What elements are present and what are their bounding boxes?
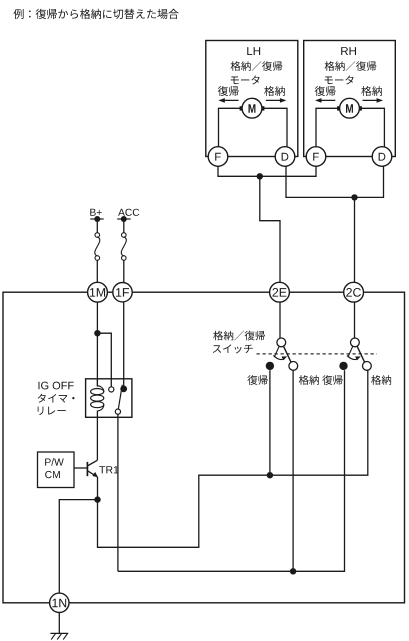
ACC tap point xyxy=(121,216,127,222)
label 2C xyxy=(346,288,361,297)
label kakunou/fukki (RH) xyxy=(325,61,377,71)
fusible link ACC xyxy=(121,233,126,261)
label timer xyxy=(38,394,75,403)
arrow fukki direction (LH) xyxy=(218,98,238,103)
wire 1M down xyxy=(96,302,98,387)
label switch (suicchi) xyxy=(213,344,253,353)
junction D-bus xyxy=(351,194,357,200)
fusible link B+ xyxy=(95,233,100,261)
label motor (LH) xyxy=(231,75,260,84)
switch 1 (2E side) pivot xyxy=(277,338,286,347)
label IG OFF xyxy=(38,382,73,390)
switch 2 (2C side) fukki contact xyxy=(339,362,347,370)
motor brush terminal left (LH) xyxy=(240,106,243,110)
junction emitter node xyxy=(94,496,100,502)
label TR1 xyxy=(99,466,118,473)
switch 1 (2E side) arm to kakunou xyxy=(284,346,292,362)
pin 2E xyxy=(270,282,290,302)
label fukki under switch2 xyxy=(322,375,342,385)
label kakunou (RH) xyxy=(361,86,382,96)
wire D(LH) to D(RH) xyxy=(286,166,384,197)
pin 2C xyxy=(344,282,364,302)
label relay xyxy=(38,406,66,414)
relay movable contact terminal xyxy=(120,386,127,393)
junction kakunou1 bus xyxy=(290,568,296,574)
label 1N xyxy=(52,599,66,608)
pin 1N xyxy=(50,593,69,612)
label motor (RH) xyxy=(325,75,354,84)
relay box xyxy=(86,379,132,418)
label fukki (LH) xyxy=(218,86,239,96)
wire emitter node to 1N xyxy=(59,500,97,593)
label RH xyxy=(341,47,356,55)
label switch kakunou/fukki xyxy=(213,331,265,341)
motor brush terminal left (RH) xyxy=(337,106,340,110)
label M (LH) xyxy=(248,104,255,112)
junction fukki1 bus xyxy=(267,472,273,478)
pin D (RH) xyxy=(372,147,392,167)
label M (RH) xyxy=(346,104,353,112)
label D (RH) xyxy=(379,153,386,161)
label fukki (RH) xyxy=(315,86,336,96)
wire 2E to switch1 pivot xyxy=(279,302,281,338)
motor M (LH) xyxy=(242,98,262,118)
arrow kakunou direction (LH) xyxy=(266,98,287,103)
label kakunou (LH) xyxy=(264,86,285,96)
relay fixed contact xyxy=(109,387,114,392)
RH motor unit box xyxy=(304,41,396,157)
arrow kakunou direction (RH) xyxy=(363,98,384,103)
wire relay output down xyxy=(117,414,119,571)
wire motor-right to D (RH) xyxy=(359,108,384,147)
label kakunou/fukki (LH) xyxy=(231,61,283,71)
wire ACC to fuse xyxy=(123,219,125,233)
switch 2 (2C side) arm to kakunou xyxy=(357,346,365,362)
mechanical link dashed line xyxy=(257,353,377,355)
wire coil to collector xyxy=(96,411,98,460)
wire relay bus to fukki2 xyxy=(118,370,345,571)
B+ rail tap bar xyxy=(90,218,103,220)
wire emitter node to fukki1/kakunou2 bus xyxy=(98,370,368,547)
wire motor-left to F (LH) xyxy=(219,108,243,147)
arrow fukki direction (RH) xyxy=(315,98,335,103)
label F (LH) xyxy=(215,153,221,161)
transistor TR1 xyxy=(87,460,98,477)
label ACC xyxy=(118,209,139,216)
switch 1 (2E side) fukki contact xyxy=(266,362,274,370)
LH motor unit box xyxy=(206,41,298,157)
label LH xyxy=(247,47,260,55)
wire motor-left to F (RH) xyxy=(316,108,340,147)
switch 2 (2C side) kakunou contact xyxy=(363,362,372,371)
wire F(LH) to F(RH) xyxy=(218,166,316,176)
switch 2 (2C side) old arm position xyxy=(348,346,353,357)
ACC rail tap bar xyxy=(117,218,130,220)
switch 2 (2C side) pivot xyxy=(351,338,360,347)
wire base lead xyxy=(74,467,87,469)
wire fuse to 1F xyxy=(123,260,125,282)
title caption xyxy=(14,9,179,19)
label 2E xyxy=(273,288,287,297)
pin F (RH) xyxy=(306,147,326,167)
wire motor-right to D (LH) xyxy=(262,108,287,147)
label 1M xyxy=(90,288,105,297)
pin 1M xyxy=(88,282,108,302)
label D (LH) xyxy=(282,153,289,161)
pin F (LH) xyxy=(208,147,228,167)
label 1F xyxy=(116,288,129,297)
switch 2 (2C side) throw arrow xyxy=(347,355,361,360)
label kakunou under switch1 xyxy=(299,375,319,385)
wire fuse to 1M xyxy=(96,260,98,282)
wire 1N to ground xyxy=(58,613,60,634)
wire node F to 2E xyxy=(260,176,280,282)
ground symbol xyxy=(50,633,68,639)
label kakunou under switch2 xyxy=(371,375,391,385)
wire fukki1 contact down xyxy=(269,370,271,475)
wire kakunou1 contact down xyxy=(292,370,294,571)
motor brush terminal right (RH) xyxy=(359,106,362,110)
wire B+ to fuse xyxy=(96,219,98,233)
label P/W xyxy=(45,458,64,466)
P/W CM box xyxy=(38,452,75,488)
switch 1 (2E side) kakunou contact xyxy=(289,362,298,371)
label CM xyxy=(45,471,60,478)
wire 2C to switch2 pivot xyxy=(354,302,356,338)
wire branch to relay contact xyxy=(97,333,111,387)
wire node D to 2C xyxy=(354,197,356,282)
label F (RH) xyxy=(313,153,319,161)
relay contact arm xyxy=(118,385,122,409)
relay output contact xyxy=(115,409,120,414)
motor M (RH) xyxy=(340,98,360,118)
label fukki under switch1 xyxy=(247,375,267,385)
main unit enclosure box xyxy=(3,292,405,603)
switch 1 (2E side) throw arrow xyxy=(273,355,287,360)
junction F-bus xyxy=(257,173,263,179)
label B+ xyxy=(90,209,102,216)
pin D (LH) xyxy=(275,147,295,167)
junction 1M branch xyxy=(94,330,100,336)
wire 1F down to relay xyxy=(123,302,125,388)
motor brush terminal right (LH) xyxy=(262,106,265,110)
B+ tap point xyxy=(94,216,100,222)
switch 1 (2E side) old arm position xyxy=(274,346,279,357)
wire emitter down xyxy=(97,477,99,500)
relay coil xyxy=(91,379,104,411)
pin 1F xyxy=(113,283,132,302)
